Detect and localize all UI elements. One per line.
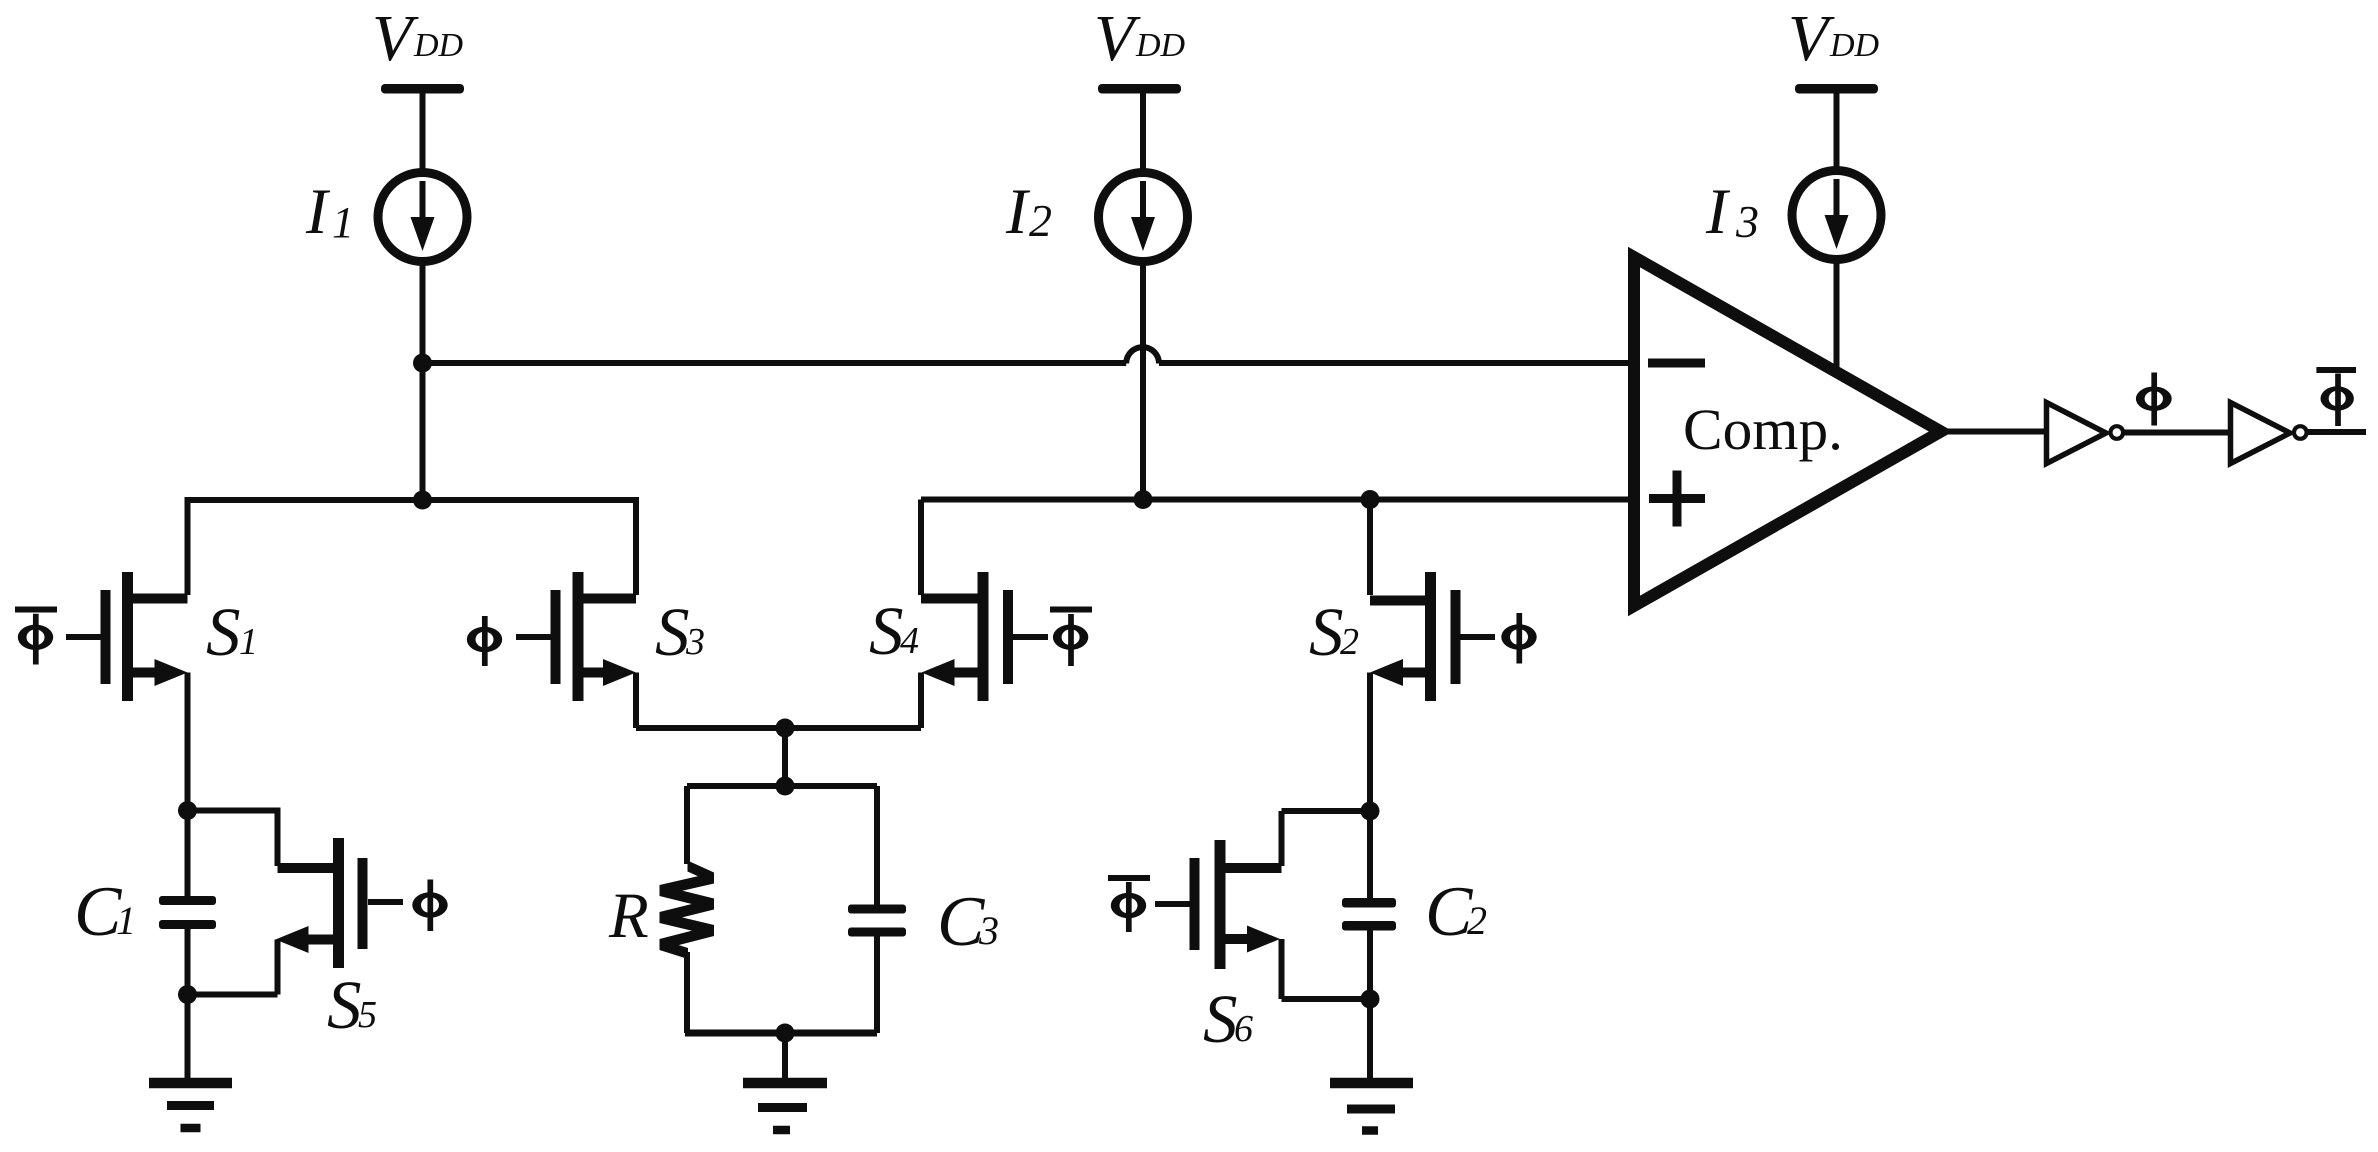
svg-text:V: V [1788,2,1835,75]
svg-text:4: 4 [900,620,919,662]
svg-text:V: V [1094,2,1141,75]
svg-text:S: S [869,593,904,669]
svg-text:DD: DD [413,27,464,64]
svg-text:1: 1 [116,898,136,943]
svg-text:DD: DD [1135,27,1186,64]
svg-text:S: S [206,594,241,670]
svg-text:S: S [327,967,362,1043]
svg-text:2: 2 [1340,621,1359,663]
svg-text:S: S [1309,594,1344,670]
svg-text:Comp.: Comp. [1683,397,1843,462]
svg-text:S: S [1203,981,1238,1057]
svg-text:3: 3 [1735,196,1759,247]
svg-text:5: 5 [358,994,377,1036]
svg-text:DD: DD [1829,27,1880,64]
svg-text:I: I [305,176,331,248]
svg-text:2: 2 [1029,195,1052,246]
svg-text:6: 6 [1234,1008,1253,1050]
svg-text:3: 3 [685,621,705,663]
svg-text:V: V [372,2,419,75]
svg-text:S: S [655,594,690,670]
svg-text:3: 3 [978,908,999,953]
svg-text:I: I [1705,176,1731,248]
svg-text:2: 2 [1467,898,1487,943]
svg-text:1: 1 [332,198,354,247]
svg-text:R: R [608,880,649,952]
svg-text:I: I [1005,176,1031,248]
svg-text:1: 1 [239,621,258,663]
